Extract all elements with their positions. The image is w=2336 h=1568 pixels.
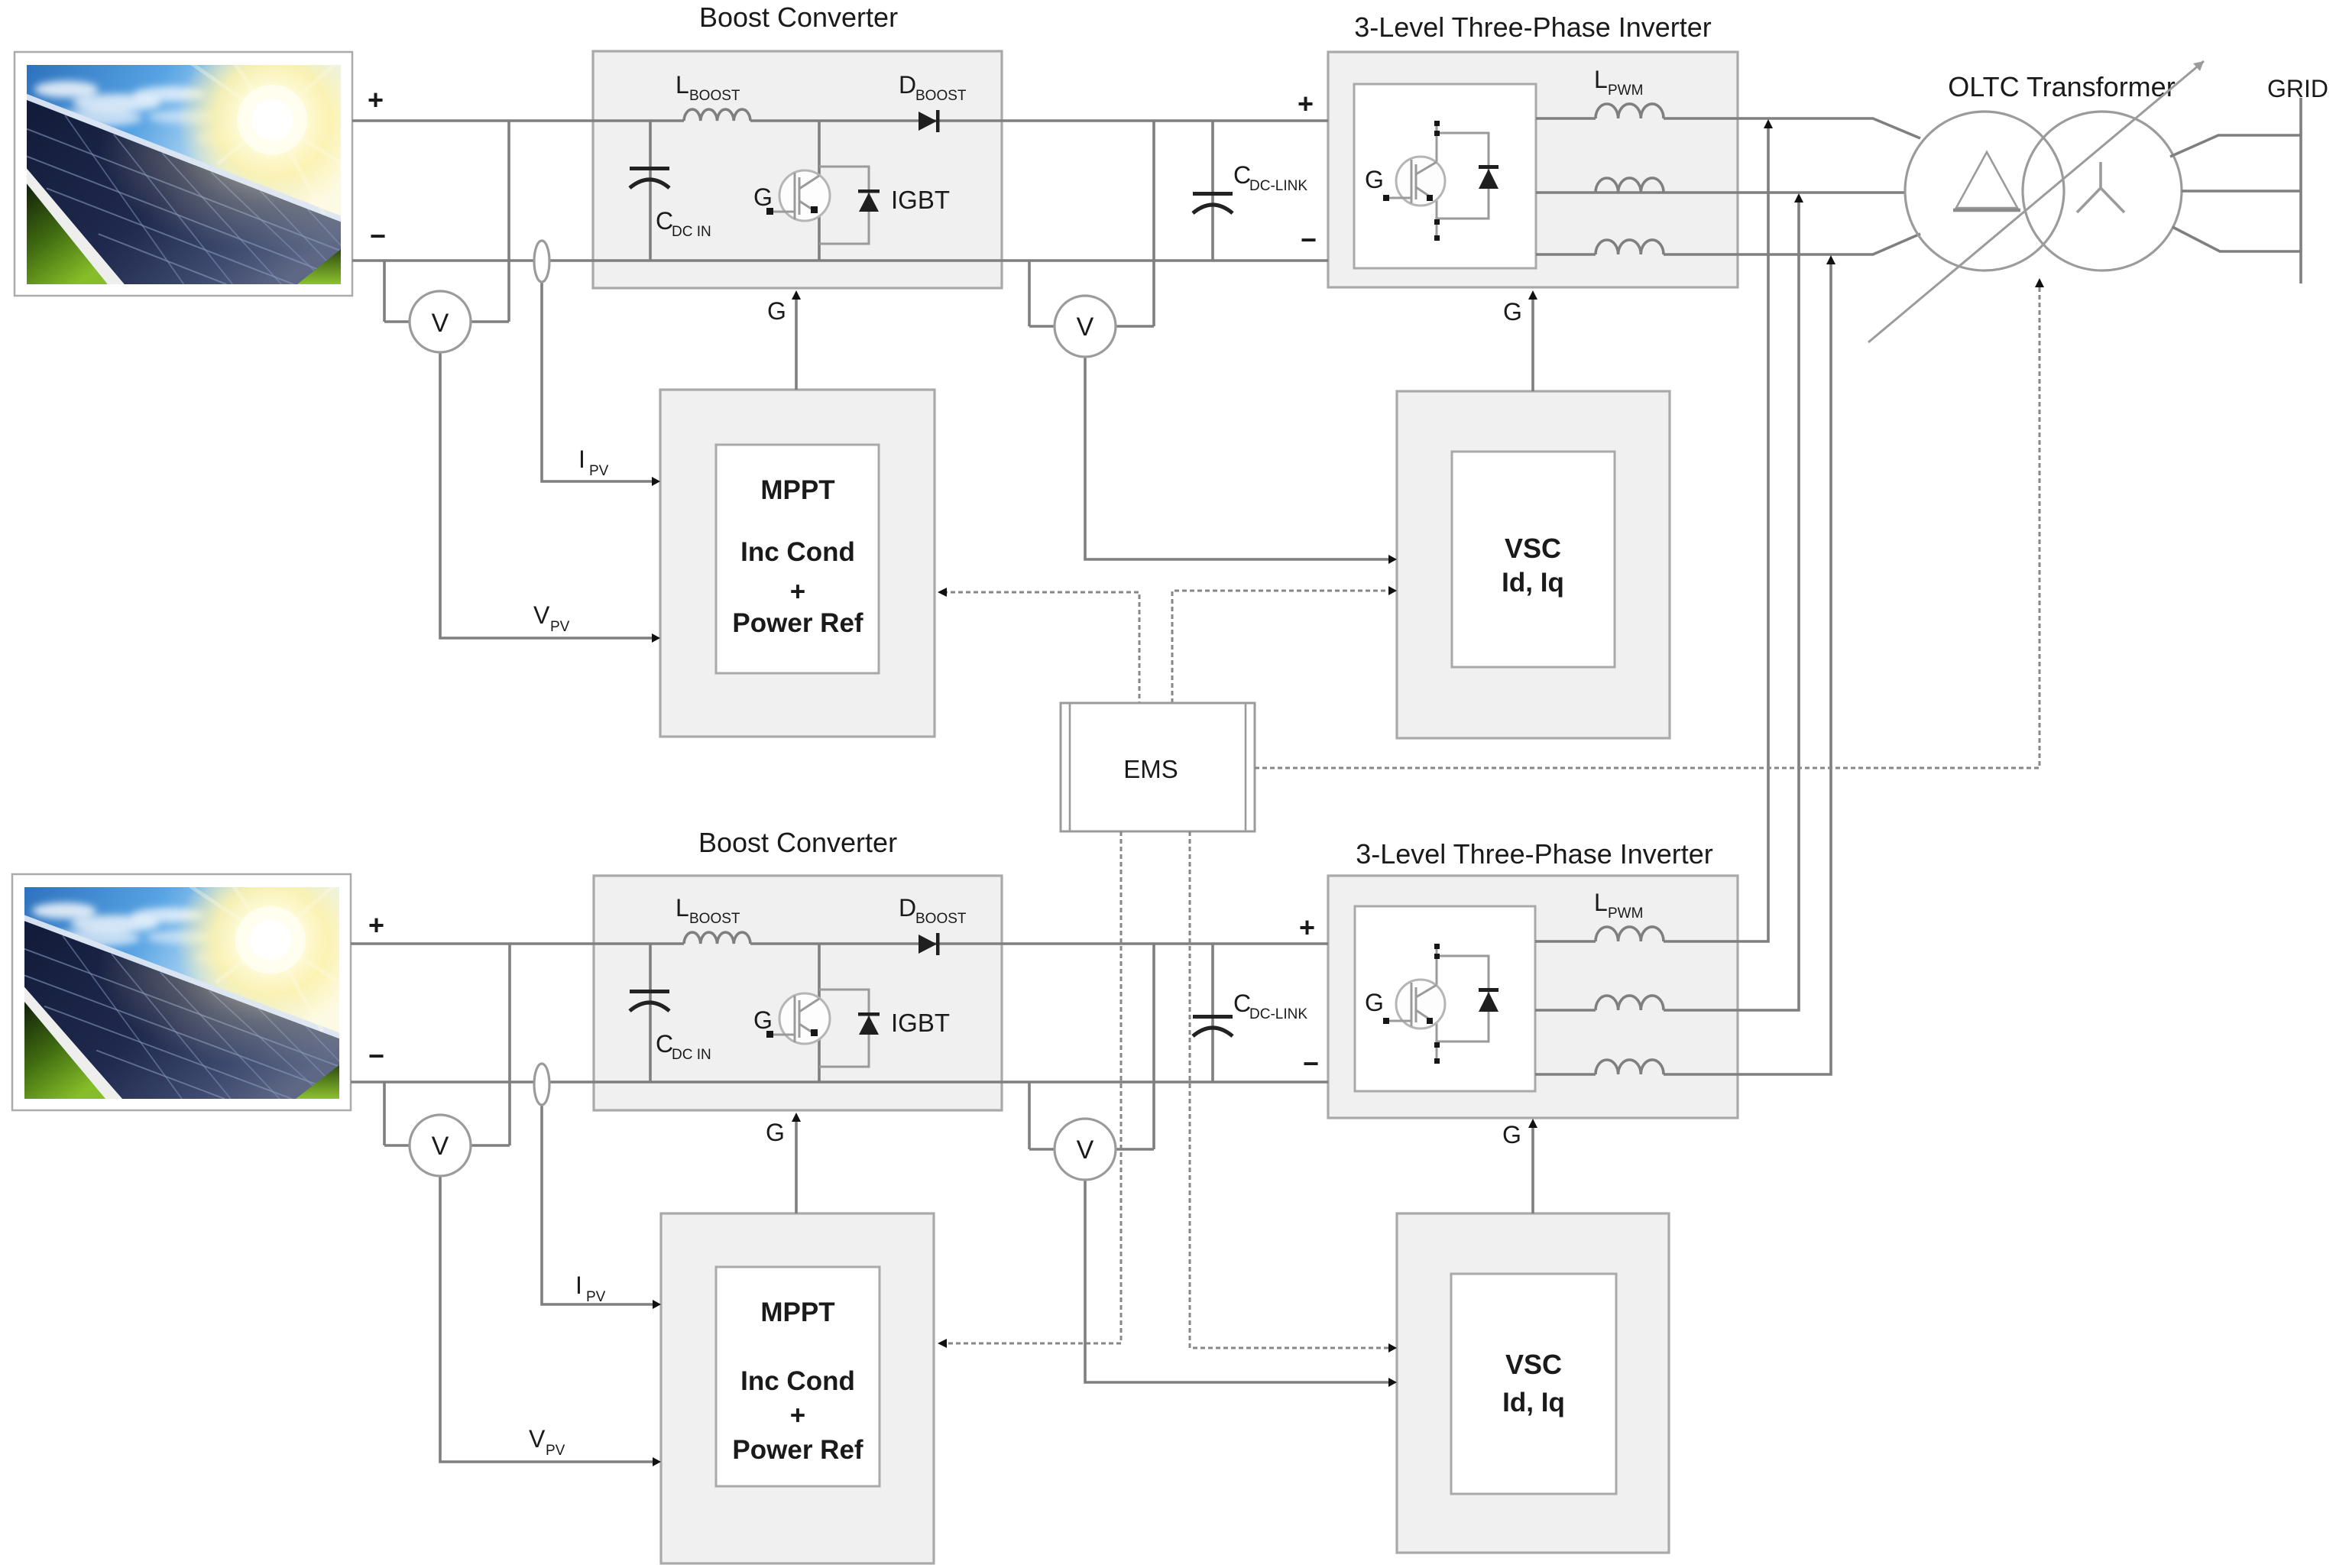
svg-text:Power Ref: Power Ref (732, 608, 863, 638)
svg-text:PV: PV (586, 1289, 606, 1305)
svg-text:IGBT: IGBT (891, 1009, 950, 1037)
svg-text:VSC: VSC (1505, 1349, 1562, 1380)
svg-text:D: D (899, 894, 916, 922)
svg-text:IGBT: IGBT (891, 186, 950, 214)
svg-text:OLTC Transformer: OLTC Transformer (1948, 71, 2175, 102)
svg-text:Inc Cond: Inc Cond (740, 1366, 855, 1396)
svg-text:I: I (578, 445, 585, 473)
svg-text:MPPT: MPPT (760, 475, 834, 505)
svg-text:V: V (1077, 313, 1094, 342)
svg-text:BOOST: BOOST (689, 911, 740, 927)
svg-text:G: G (766, 1119, 785, 1146)
svg-text:Boost Converter: Boost Converter (698, 827, 897, 858)
svg-text:G: G (753, 1006, 773, 1034)
svg-text:G: G (1365, 166, 1384, 193)
svg-text:−: − (1303, 1048, 1319, 1079)
svg-text:−: − (368, 1040, 384, 1071)
svg-text:C: C (1233, 161, 1251, 189)
svg-text:V: V (1077, 1136, 1094, 1165)
svg-text:L: L (676, 71, 689, 99)
svg-text:PV: PV (589, 463, 609, 479)
svg-text:G: G (1365, 989, 1384, 1016)
svg-text:V: V (529, 1425, 546, 1453)
svg-text:3-Level Three-Phase Inverter: 3-Level Three-Phase Inverter (1354, 11, 1712, 43)
svg-text:DC-LINK: DC-LINK (1249, 178, 1307, 194)
svg-text:L: L (1594, 66, 1608, 93)
svg-text:DC IN: DC IN (672, 1047, 711, 1063)
svg-text:+: + (1299, 912, 1315, 943)
svg-text:−: − (370, 220, 386, 251)
svg-text:VSC: VSC (1505, 533, 1561, 564)
svg-text:Id, Iq: Id, Iq (1502, 568, 1564, 598)
svg-text:D: D (899, 71, 916, 99)
svg-text:G: G (1503, 298, 1522, 326)
svg-text:G: G (753, 183, 773, 211)
svg-text:I: I (575, 1272, 582, 1299)
svg-text:V: V (432, 1132, 449, 1161)
svg-text:BOOST: BOOST (915, 88, 967, 104)
svg-text:DC-LINK: DC-LINK (1249, 1006, 1307, 1022)
svg-text:Inc Cond: Inc Cond (740, 537, 855, 567)
svg-text:Boost Converter: Boost Converter (699, 2, 898, 33)
svg-text:DC IN: DC IN (672, 224, 711, 240)
svg-text:3-Level Three-Phase Inverter: 3-Level Three-Phase Inverter (1356, 838, 1713, 870)
svg-text:+: + (790, 1401, 805, 1430)
svg-text:C: C (656, 207, 673, 235)
svg-text:Id, Iq: Id, Iq (1502, 1388, 1565, 1417)
svg-text:+: + (368, 909, 384, 941)
svg-text:BOOST: BOOST (689, 88, 740, 104)
svg-text:L: L (1594, 889, 1608, 916)
svg-text:G: G (1502, 1121, 1521, 1148)
svg-text:L: L (676, 894, 689, 922)
svg-text:V: V (432, 309, 449, 338)
svg-text:C: C (1233, 990, 1251, 1017)
svg-text:BOOST: BOOST (915, 911, 967, 927)
svg-text:+: + (368, 84, 384, 115)
svg-text:MPPT: MPPT (760, 1297, 834, 1327)
svg-text:G: G (767, 297, 786, 325)
svg-text:C: C (656, 1030, 673, 1058)
svg-text:−: − (1301, 224, 1317, 255)
svg-text:PV: PV (546, 1443, 565, 1459)
svg-text:+: + (1298, 88, 1314, 119)
svg-text:+: + (790, 577, 805, 607)
svg-text:PV: PV (550, 619, 570, 635)
svg-text:PWM: PWM (1608, 83, 1643, 99)
svg-text:Power Ref: Power Ref (732, 1435, 863, 1465)
svg-text:V: V (533, 601, 550, 629)
svg-text:EMS: EMS (1123, 755, 1178, 783)
svg-text:GRID: GRID (2267, 75, 2328, 102)
svg-text:PWM: PWM (1608, 905, 1643, 922)
